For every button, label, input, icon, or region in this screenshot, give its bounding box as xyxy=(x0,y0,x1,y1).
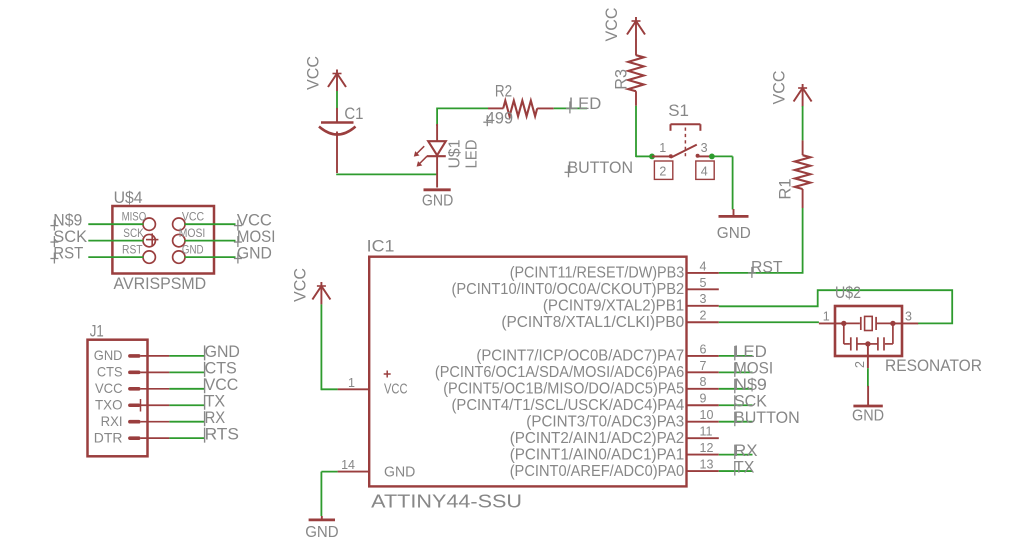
wire SCK to U$4 xyxy=(88,240,143,242)
svg-text:RTS: RTS xyxy=(205,424,239,443)
svg-text:13: 13 xyxy=(700,457,714,471)
IC1 pin 13 ((PCINT0/AREF/ADC0)PA0) xyxy=(510,457,719,479)
wire C1 to LED cathode node xyxy=(336,173,437,175)
svg-text:R1: R1 xyxy=(776,178,795,199)
svg-text:SCK: SCK xyxy=(123,228,144,240)
svg-text:GND: GND xyxy=(237,244,272,263)
svg-text:(PCINT8/XTAL1/CLKI)PB0: (PCINT8/XTAL1/CLKI)PB0 xyxy=(501,314,684,331)
IC1 pin 6 ((PCINT7/ICP/OC0B/ADC7)PA7) xyxy=(476,342,718,364)
svg-text:4: 4 xyxy=(701,165,708,179)
net label VCC (U$4 right) xyxy=(234,211,272,231)
U$4 pin circle left (RST) xyxy=(122,244,155,263)
svg-text:2: 2 xyxy=(853,361,867,368)
svg-text:9: 9 xyxy=(700,392,707,406)
wire U$4 to GND xyxy=(185,256,236,258)
svg-text:GND: GND xyxy=(305,524,338,541)
net label RST xyxy=(748,257,783,278)
J1 pin VCC xyxy=(95,380,169,396)
svg-text:GND: GND xyxy=(94,347,123,363)
svg-text:RST: RST xyxy=(122,244,143,256)
IC1 pin 5 ((PCINT10/INT0/OC0A/CKOUT)PB2) xyxy=(452,276,719,298)
resonator pin 2 lead xyxy=(853,344,868,368)
J1 pin DTR xyxy=(94,429,170,445)
svg-text:GND: GND xyxy=(384,464,415,480)
svg-text:R3: R3 xyxy=(612,69,631,90)
svg-text:TX: TX xyxy=(734,457,754,476)
svg-text:LED: LED xyxy=(569,94,601,113)
svg-text:3: 3 xyxy=(701,141,708,155)
wire IC1 net LED xyxy=(719,355,753,357)
svg-text:5: 5 xyxy=(700,276,707,290)
power VCC symbol (R3 branch) xyxy=(602,8,645,42)
IC1 pin 1 (VCC) xyxy=(338,371,408,398)
svg-text:RST: RST xyxy=(53,244,83,263)
svg-text:14: 14 xyxy=(341,458,355,472)
svg-text:1: 1 xyxy=(823,310,830,324)
svg-text:12: 12 xyxy=(700,441,714,455)
wire U$4 to VCC xyxy=(185,223,236,225)
wire N$9 to U$4 xyxy=(88,223,143,225)
net label TX (J1) xyxy=(205,391,226,410)
svg-text:U$1: U$1 xyxy=(447,139,464,168)
svg-text:AVRISPSMD: AVRISPSMD xyxy=(114,274,207,293)
wire R3 to switch S1 pin 1 xyxy=(636,106,652,157)
net label LED (IC1) xyxy=(734,342,767,361)
svg-text:1: 1 xyxy=(659,141,666,155)
resonator U$2 box xyxy=(835,306,902,356)
svg-text:CTS: CTS xyxy=(97,364,123,380)
resonator internal capacitors xyxy=(844,323,893,350)
wire J1 RTS xyxy=(169,437,204,439)
U$2 value label RESONATOR xyxy=(885,357,982,375)
net label N$9 (IC1) xyxy=(734,375,767,394)
svg-text:U$4: U$4 xyxy=(114,188,143,207)
wire IC1 net N$9 xyxy=(719,388,753,390)
net label CTS (J1) xyxy=(205,359,237,378)
IC1 pin 11 ((PCINT2/AIN1/ADC2)PA2) xyxy=(510,425,719,447)
svg-text:GND: GND xyxy=(182,244,204,256)
net label MOSI (IC1) xyxy=(734,359,773,378)
wire IC1 net TX xyxy=(719,470,753,472)
svg-text:VCC: VCC xyxy=(291,268,310,302)
resistor R2 xyxy=(483,81,553,127)
J1 pin RXI xyxy=(101,413,170,429)
svg-text:(PCINT2/AIN1/ADC2)PA2: (PCINT2/AIN1/ADC2)PA2 xyxy=(510,430,685,447)
IC U1 box (ATtiny44) xyxy=(369,257,686,487)
wire VCC to C1 xyxy=(336,91,338,109)
power VCC symbol (R1 branch) xyxy=(770,71,812,107)
LED U$1 xyxy=(414,124,481,188)
svg-text:(PCINT11/RESET/DW)PB3: (PCINT11/RESET/DW)PB3 xyxy=(510,265,685,282)
svg-text:GND: GND xyxy=(852,408,884,425)
svg-text:C1: C1 xyxy=(344,104,363,123)
svg-text:VCC: VCC xyxy=(384,382,408,398)
U$4 pin circle right (VCC) xyxy=(173,212,204,231)
wire IC1 pin 14 to GND xyxy=(321,472,337,516)
net label TX (IC1) xyxy=(734,457,754,476)
U$4 name label xyxy=(114,188,143,207)
ground GND (LED) xyxy=(422,190,453,210)
IC1 name label xyxy=(367,237,395,256)
svg-text:J1: J1 xyxy=(90,322,104,341)
switch S1 xyxy=(652,101,714,180)
svg-text:IC1: IC1 xyxy=(367,237,395,256)
U$4 pin circle right (GND) xyxy=(173,244,204,263)
svg-text:ATTINY44-SSU: ATTINY44-SSU xyxy=(371,492,522,512)
wire U$4 to MOSI xyxy=(185,240,236,242)
svg-text:S1: S1 xyxy=(668,101,689,120)
net label BUTTON (IC1) xyxy=(734,408,800,427)
svg-text:VCC: VCC xyxy=(304,56,323,90)
ground GND (IC1) xyxy=(305,516,338,541)
wire IC1 net MOSI xyxy=(719,371,753,373)
IC1 pin 12 ((PCINT1/AIN0/ADC1)PA1) xyxy=(510,441,719,463)
U$4 origin cross xyxy=(146,233,158,245)
wire resonator pin 2 to GND xyxy=(867,368,869,386)
net label SCK (IC1) xyxy=(734,391,768,410)
svg-text:GND: GND xyxy=(422,192,453,209)
svg-text:2: 2 xyxy=(659,165,666,179)
net label RX (J1) xyxy=(205,408,226,427)
U$4 value label AVRISPSMD xyxy=(114,274,207,293)
net label N$9 (U$4) xyxy=(50,211,82,231)
svg-text:(PCINT0/AREF/ADC0)PA0: (PCINT0/AREF/ADC0)PA0 xyxy=(510,463,685,480)
resonator crystal symbol xyxy=(841,316,896,330)
svg-text:LED: LED xyxy=(464,140,481,169)
svg-text:499: 499 xyxy=(486,109,513,128)
svg-text:(PCINT7/ICP/OC0B/ADC7)PA7: (PCINT7/ICP/OC0B/ADC7)PA7 xyxy=(476,348,684,365)
svg-text:U$2: U$2 xyxy=(835,283,861,302)
net label RST (U$4) xyxy=(50,244,83,264)
svg-text:BUTTON: BUTTON xyxy=(568,158,634,177)
svg-text:8: 8 xyxy=(700,375,707,389)
ground GND (resonator) xyxy=(852,386,884,425)
svg-text:(PCINT6/OC1A/SDA/MOSI/ADC6)PA6: (PCINT6/OC1A/SDA/MOSI/ADC6)PA6 xyxy=(435,364,684,381)
U$4 pin circle left (SCK) xyxy=(123,228,155,247)
svg-text:7: 7 xyxy=(700,359,707,373)
wire J1 RX xyxy=(169,421,204,423)
wire R1 to RST net xyxy=(719,208,804,273)
net label RX (IC1) xyxy=(734,441,758,460)
net label RTS (J1) xyxy=(205,424,239,443)
svg-text:MOSI: MOSI xyxy=(179,228,206,240)
ISP header U$4 box xyxy=(112,206,214,274)
svg-text:3: 3 xyxy=(905,310,912,324)
svg-text:(PCINT5/OC1B/MISO/DO/ADC5)PA5: (PCINT5/OC1B/MISO/DO/ADC5)PA5 xyxy=(443,381,684,398)
IC1 pin 8 ((PCINT5/OC1B/MISO/DO/ADC5)PA5) xyxy=(443,375,719,397)
resonator pin 1 lead xyxy=(819,310,844,324)
J1 pin TXO xyxy=(95,397,169,413)
resonator pin 3 lead xyxy=(893,310,918,324)
connector J1 box xyxy=(88,340,148,457)
svg-text:(PCINT1/AIN0/ADC1)PA1: (PCINT1/AIN0/ADC1)PA1 xyxy=(510,446,685,463)
svg-text:RESONATOR: RESONATOR xyxy=(885,357,982,375)
net label VCC (J1) xyxy=(205,375,239,394)
svg-text:4: 4 xyxy=(700,259,707,273)
svg-text:VCC: VCC xyxy=(95,380,123,396)
IC1 pin 10 ((PCINT3/T0/ADC3)PA3) xyxy=(526,408,719,430)
svg-text:VCC: VCC xyxy=(770,71,789,105)
wire RST to U$4 xyxy=(88,256,143,258)
svg-text:6: 6 xyxy=(700,342,707,356)
IC1 pin 9 ((PCINT4/T1/SCL/USCK/ADC4)PA4) xyxy=(452,392,719,414)
junction dot S1 pin 1 xyxy=(649,154,655,160)
svg-text:BUTTON: BUTTON xyxy=(734,408,800,427)
J1 pin CTS xyxy=(97,364,169,380)
svg-text:(PCINT4/T1/SCL/USCK/ADC4)PA4: (PCINT4/T1/SCL/USCK/ADC4)PA4 xyxy=(452,397,685,414)
wire J1 CTS xyxy=(169,371,204,373)
net label GND (J1) xyxy=(205,342,240,361)
capacitor C1 xyxy=(319,104,364,173)
wire IC1 net SCK xyxy=(719,404,753,406)
power VCC symbol (C1 branch) xyxy=(304,56,347,91)
wire J1 VCC xyxy=(169,388,204,390)
J1 pin GND xyxy=(94,347,170,363)
svg-text:TXO: TXO xyxy=(95,397,123,413)
wire J1 TX xyxy=(169,404,204,406)
svg-text:RXI: RXI xyxy=(101,413,123,429)
wire R2 to LED net xyxy=(554,107,587,109)
IC1 pin 14 (GND) xyxy=(338,458,416,480)
net label BUTTON xyxy=(565,158,634,178)
resistor R3 xyxy=(612,39,644,106)
svg-text:(PCINT10/INT0/OC0A/CKOUT)PB2: (PCINT10/INT0/OC0A/CKOUT)PB2 xyxy=(452,281,685,298)
resistor R1 xyxy=(776,106,811,208)
IC1 value label ATTINY44-SSU xyxy=(371,492,522,512)
svg-text:2: 2 xyxy=(700,309,707,323)
svg-text:(PCINT9/XTAL2)PB1: (PCINT9/XTAL2)PB1 xyxy=(543,298,684,315)
svg-text:3: 3 xyxy=(700,292,707,306)
net label GND (U$4 right) xyxy=(234,244,272,264)
net label LED xyxy=(566,94,601,114)
power VCC symbol (IC1) xyxy=(291,268,331,304)
IC1 pin 2 ((PCINT8/XTAL1/CLKI)PB0) xyxy=(501,309,718,331)
svg-text:10: 10 xyxy=(700,408,714,422)
wire IC1 net RX xyxy=(719,454,753,456)
U$4 pin circle right (MOSI) xyxy=(173,228,206,247)
ground GND (button) xyxy=(717,209,751,242)
svg-text:R2: R2 xyxy=(495,81,512,100)
wire IC1 pin 3 to resonator pin 3 xyxy=(719,290,952,323)
wire LED anode to R2 xyxy=(437,108,488,127)
J1 name label xyxy=(90,322,104,341)
net label MOSI (U$4 right) xyxy=(234,227,276,247)
net label SCK (U$4) xyxy=(50,227,87,247)
IC1 pin 7 ((PCINT6/OC1A/SDA/MOSI/ADC6)PA6) xyxy=(435,359,719,381)
svg-text:VCC: VCC xyxy=(602,8,621,42)
IC1 pin 3 ((PCINT9/XTAL2)PB1) xyxy=(543,292,719,314)
svg-text:11: 11 xyxy=(700,425,713,439)
wire IC1 pin 2 to resonator pin 1 xyxy=(719,321,819,323)
wire VCC to IC1 pin 1 xyxy=(321,304,337,390)
wire S1 to GND xyxy=(712,156,733,209)
wire J1 GND xyxy=(169,355,204,357)
IC1 pin 4 ((PCINT11/RESET/DW)PB3) xyxy=(510,259,719,281)
junction dot S1 pin 3 xyxy=(709,154,715,160)
svg-text:MISO: MISO xyxy=(122,212,147,224)
svg-text:DTR: DTR xyxy=(94,429,123,445)
U$2 name label xyxy=(835,283,861,302)
U$4 pin circle left (MISO) xyxy=(122,212,156,231)
svg-text:1: 1 xyxy=(348,376,355,390)
svg-text:VCC: VCC xyxy=(182,212,204,224)
svg-text:GND: GND xyxy=(717,225,751,242)
wire IC1 net BUTTON xyxy=(719,421,753,423)
svg-text:(PCINT3/T0/ADC3)PA3: (PCINT3/T0/ADC3)PA3 xyxy=(526,414,684,431)
